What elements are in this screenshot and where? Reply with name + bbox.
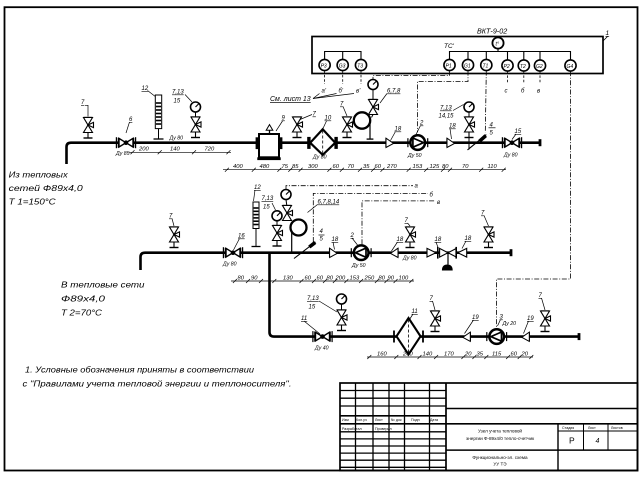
check valve 18 return left xyxy=(330,248,338,257)
input circle G4 xyxy=(565,60,576,71)
wire G1 to supply flowmeter xyxy=(418,71,469,133)
document name xyxy=(466,428,535,467)
check valve 18 return mid xyxy=(391,248,399,257)
input circle P2 xyxy=(502,60,513,71)
svg-text:Проверил: Проверил xyxy=(375,427,392,431)
svg-text:Листов: Листов xyxy=(611,426,623,430)
wire stub b' from G3 xyxy=(342,71,344,84)
svg-text:№ док: № док xyxy=(391,418,402,422)
svg-text:15: 15 xyxy=(309,305,316,311)
svg-text:160: 160 xyxy=(377,351,387,357)
svg-text:60: 60 xyxy=(375,164,382,170)
wire G4 to makeup flowmeter xyxy=(497,71,571,327)
svg-text:60: 60 xyxy=(511,351,518,357)
left grid horizontals xyxy=(340,390,446,392)
svg-text:270: 270 xyxy=(386,164,397,170)
svg-text:20: 20 xyxy=(464,351,472,357)
left grid verticals xyxy=(355,383,357,471)
svg-text:130: 130 xyxy=(283,275,293,281)
svg-text:Узел учета тепловой: Узел учета тепловой xyxy=(478,428,522,434)
svg-text:Разработал: Разработал xyxy=(342,427,362,431)
svg-text:11: 11 xyxy=(412,309,418,315)
flow meter 2 supply xyxy=(408,135,428,150)
svg-text:Из тепловых: Из тепловых xyxy=(9,170,69,180)
svg-text:35: 35 xyxy=(363,164,370,170)
svg-text:Изм: Изм xyxy=(342,418,349,422)
svg-text:140: 140 xyxy=(170,147,180,153)
vent cock 7 on makeup xyxy=(431,311,441,332)
svg-text:Ду 80: Ду 80 xyxy=(312,155,327,161)
vent cock 7 on return right xyxy=(484,227,494,248)
svg-text:в: в xyxy=(437,200,440,206)
svg-text:153: 153 xyxy=(413,164,423,170)
bus wire left group xyxy=(325,52,361,60)
svg-text:140: 140 xyxy=(423,351,433,357)
strainer filter 10 xyxy=(307,129,338,155)
svg-text:200: 200 xyxy=(138,147,149,153)
gate valve 11 xyxy=(313,331,332,342)
svg-text:80: 80 xyxy=(442,164,449,170)
svg-text:Подп: Подп xyxy=(411,418,420,422)
filter 11 on makeup xyxy=(394,318,423,355)
svg-text:Т2: Т2 xyxy=(520,64,526,70)
svg-text:70: 70 xyxy=(348,164,355,170)
thermometer 12 on supply xyxy=(154,95,164,139)
svg-text:в: в xyxy=(537,89,540,95)
supply pipe xyxy=(67,143,541,164)
input circle G1 xyxy=(462,59,473,70)
svg-text:Ду 80: Ду 80 xyxy=(402,256,417,262)
svg-text:G2: G2 xyxy=(536,64,543,70)
wire stub a' from P3 xyxy=(324,71,326,84)
svg-text:400: 400 xyxy=(233,164,243,170)
svg-text:720: 720 xyxy=(205,147,215,153)
temperature sensor 4/5 supply xyxy=(468,135,487,150)
svg-text:14,15: 14,15 xyxy=(439,114,455,120)
svg-text:с: с xyxy=(505,89,508,95)
svg-text:125: 125 xyxy=(430,164,440,170)
svg-text:35: 35 xyxy=(477,351,484,357)
svg-text:18: 18 xyxy=(435,237,442,243)
vent cock 7 after mud trap xyxy=(293,117,303,138)
wire stub v' from T3 xyxy=(360,71,362,84)
input circle G3 xyxy=(337,59,348,70)
svg-text:G3: G3 xyxy=(339,63,346,69)
svg-text:Ду 20: Ду 20 xyxy=(502,321,517,327)
svg-text:Лист: Лист xyxy=(375,418,383,422)
svg-text:Ду 80: Ду 80 xyxy=(222,262,237,268)
title block small texts xyxy=(342,418,623,431)
svg-text:Ду 80: Ду 80 xyxy=(169,136,184,142)
svg-text:Ф89х4,0: Ф89х4,0 xyxy=(61,294,105,304)
svg-text:60: 60 xyxy=(333,164,340,170)
return pipe xyxy=(141,253,512,270)
makeup pipe xyxy=(270,254,580,337)
svg-text:Ду 85: Ду 85 xyxy=(115,151,130,157)
flow meter 3 makeup xyxy=(487,329,507,344)
svg-text:Лист: Лист xyxy=(588,426,596,430)
svg-text:Т1: Т1 xyxy=(483,63,489,69)
check valve 18 supply xyxy=(386,138,394,147)
manometer assembly a on return: gauge, cock, loop xyxy=(281,190,291,200)
svg-text:60: 60 xyxy=(305,275,312,281)
svg-text:ТС': ТС' xyxy=(444,43,455,50)
dimension row 3 under return xyxy=(231,279,414,283)
svg-text:75: 75 xyxy=(282,164,289,170)
svg-text:УУ ТЭ: УУ ТЭ xyxy=(493,462,507,467)
vent cock 7 on return mid xyxy=(406,227,416,248)
vent cock 7 on makeup right xyxy=(541,311,551,332)
vent cock 7 on supply xyxy=(84,118,94,139)
ball valve 15 supply xyxy=(502,137,521,148)
svg-text:Р3: Р3 xyxy=(321,63,327,69)
svg-text:Р: Р xyxy=(569,436,575,446)
svg-text:6,7,8,14: 6,7,8,14 xyxy=(318,200,340,206)
svg-text:Р1: Р1 xyxy=(446,63,452,69)
svg-text:В тепловые сети: В тепловые сети xyxy=(61,280,145,290)
svg-text:15: 15 xyxy=(263,205,270,211)
title block outer xyxy=(340,383,638,471)
svg-text:2: 2 xyxy=(419,121,424,127)
svg-text:6,7,8: 6,7,8 xyxy=(387,89,401,95)
leader item 1 xyxy=(603,37,608,42)
svg-text:См. лист 13: См. лист 13 xyxy=(270,96,311,103)
svg-text:Стадия: Стадия xyxy=(562,426,574,430)
svg-text:480: 480 xyxy=(260,164,270,170)
manometer assembly 6,7,8 on supply: loop, cock, gauge xyxy=(354,112,370,128)
svg-text:115: 115 xyxy=(492,351,502,357)
wire v from return flowmeter xyxy=(362,201,436,244)
bus wire right group xyxy=(450,52,571,60)
input circle T1 xyxy=(481,59,492,70)
svg-text:90: 90 xyxy=(251,275,258,281)
svg-text:60: 60 xyxy=(317,275,324,281)
svg-text:Т3: Т3 xyxy=(357,63,363,69)
svg-text:Дата: Дата xyxy=(430,418,438,422)
vent cock 7 on return left xyxy=(170,227,180,248)
svg-text:80: 80 xyxy=(238,275,245,281)
svg-text:18: 18 xyxy=(332,237,339,243)
svg-text:80: 80 xyxy=(379,275,386,281)
input circle T2 xyxy=(518,60,529,71)
svg-text:энергии Ф-89х4/0 тепло-счетч: энергии Ф-89х4/0 тепло-счетчик xyxy=(466,436,535,441)
svg-text:7,13: 7,13 xyxy=(172,90,184,96)
svg-text:G1: G1 xyxy=(464,63,471,69)
svg-text:200: 200 xyxy=(402,351,413,357)
svg-text:Ду 80: Ду 80 xyxy=(503,153,518,159)
svg-text:70: 70 xyxy=(462,164,469,170)
temperature sensor circle t xyxy=(492,37,503,48)
check valve 19 after flowmeter xyxy=(522,332,530,341)
svg-text:100: 100 xyxy=(399,275,409,281)
svg-text:110: 110 xyxy=(488,164,498,170)
check valve 19 before flowmeter xyxy=(463,332,471,341)
svg-text:Ду 50: Ду 50 xyxy=(351,263,366,269)
svg-text:Ду 50: Ду 50 xyxy=(407,153,422,159)
svg-text:250: 250 xyxy=(364,275,375,281)
svg-text:G4: G4 xyxy=(567,64,574,70)
svg-text:10: 10 xyxy=(325,116,332,122)
temperature sensor 4/5 return xyxy=(294,242,316,259)
svg-text:Т 1=150°С: Т 1=150°С xyxy=(9,197,57,207)
check valve 18 after flow meter xyxy=(447,138,455,147)
pipe end tick xyxy=(578,333,581,340)
wire stub b from T2 xyxy=(523,71,525,84)
svg-text:80: 80 xyxy=(327,275,334,281)
input circle T3 xyxy=(355,59,366,70)
svg-text:85: 85 xyxy=(292,164,299,170)
svg-text:90: 90 xyxy=(388,275,395,281)
input circle G2 xyxy=(534,60,545,71)
svg-text:Кол.уч: Кол.уч xyxy=(356,418,367,422)
svg-text:7,13: 7,13 xyxy=(307,296,319,302)
control valve group on return xyxy=(427,247,467,271)
dimension row 1 under supply xyxy=(129,150,231,154)
dimension row 2 under supply xyxy=(223,168,506,172)
wire b from return temperature sensor xyxy=(313,193,428,242)
calculator box VKT-9-02 xyxy=(312,37,603,74)
svg-text:Р2: Р2 xyxy=(504,64,510,70)
svg-text:ВКТ-9-02: ВКТ-9-02 xyxy=(477,27,507,36)
gate valve 6 xyxy=(116,137,135,148)
input circle P1 xyxy=(444,59,455,70)
svg-text:170: 170 xyxy=(444,351,454,357)
wire P1 to supply manometer xyxy=(373,71,450,80)
gate valve 16 xyxy=(223,247,242,258)
svg-text:Ду 40: Ду 40 xyxy=(314,346,329,352)
pipe end tick xyxy=(539,139,542,146)
wire a from return manometer xyxy=(286,186,413,190)
svg-text:300: 300 xyxy=(308,164,318,170)
wire stub v from G2 xyxy=(539,71,541,84)
svg-text:1: 1 xyxy=(606,30,610,37)
flow meter 2 return xyxy=(351,245,371,260)
input circle P3 xyxy=(319,59,330,70)
pipe end tick xyxy=(510,249,513,256)
svg-text:20: 20 xyxy=(521,351,529,357)
svg-text:t°: t° xyxy=(496,42,500,48)
vent cock 7 before loop xyxy=(343,117,353,138)
svg-text:сетей Ф89х4,0: сетей Ф89х4,0 xyxy=(9,183,83,193)
mud trap 9 xyxy=(256,125,283,161)
svg-text:200: 200 xyxy=(335,275,346,281)
svg-text:Т 2=70°С: Т 2=70°С xyxy=(61,308,103,318)
svg-text:7,13: 7,13 xyxy=(440,106,452,112)
svg-text:Функционально-эл. схема: Функционально-эл. схема xyxy=(472,455,528,460)
wire T1 to supply temperature sensor xyxy=(485,71,486,133)
thermometer 12 on return xyxy=(252,202,261,247)
svg-text:с "Правилами учета тепловой: с "Правилами учета тепловой энергии и те… xyxy=(23,380,292,389)
svg-text:153: 153 xyxy=(350,275,360,281)
dimension row 4 under makeup xyxy=(367,355,533,359)
svg-text:4: 4 xyxy=(596,438,600,445)
right area lines xyxy=(446,408,638,410)
svg-text:1. Условные обозначения прин: 1. Условные обозначения приняты в соотве… xyxy=(25,366,255,375)
svg-text:7,13: 7,13 xyxy=(262,196,274,202)
wire stub c from P2 xyxy=(507,71,509,84)
svg-text:15: 15 xyxy=(174,99,181,105)
